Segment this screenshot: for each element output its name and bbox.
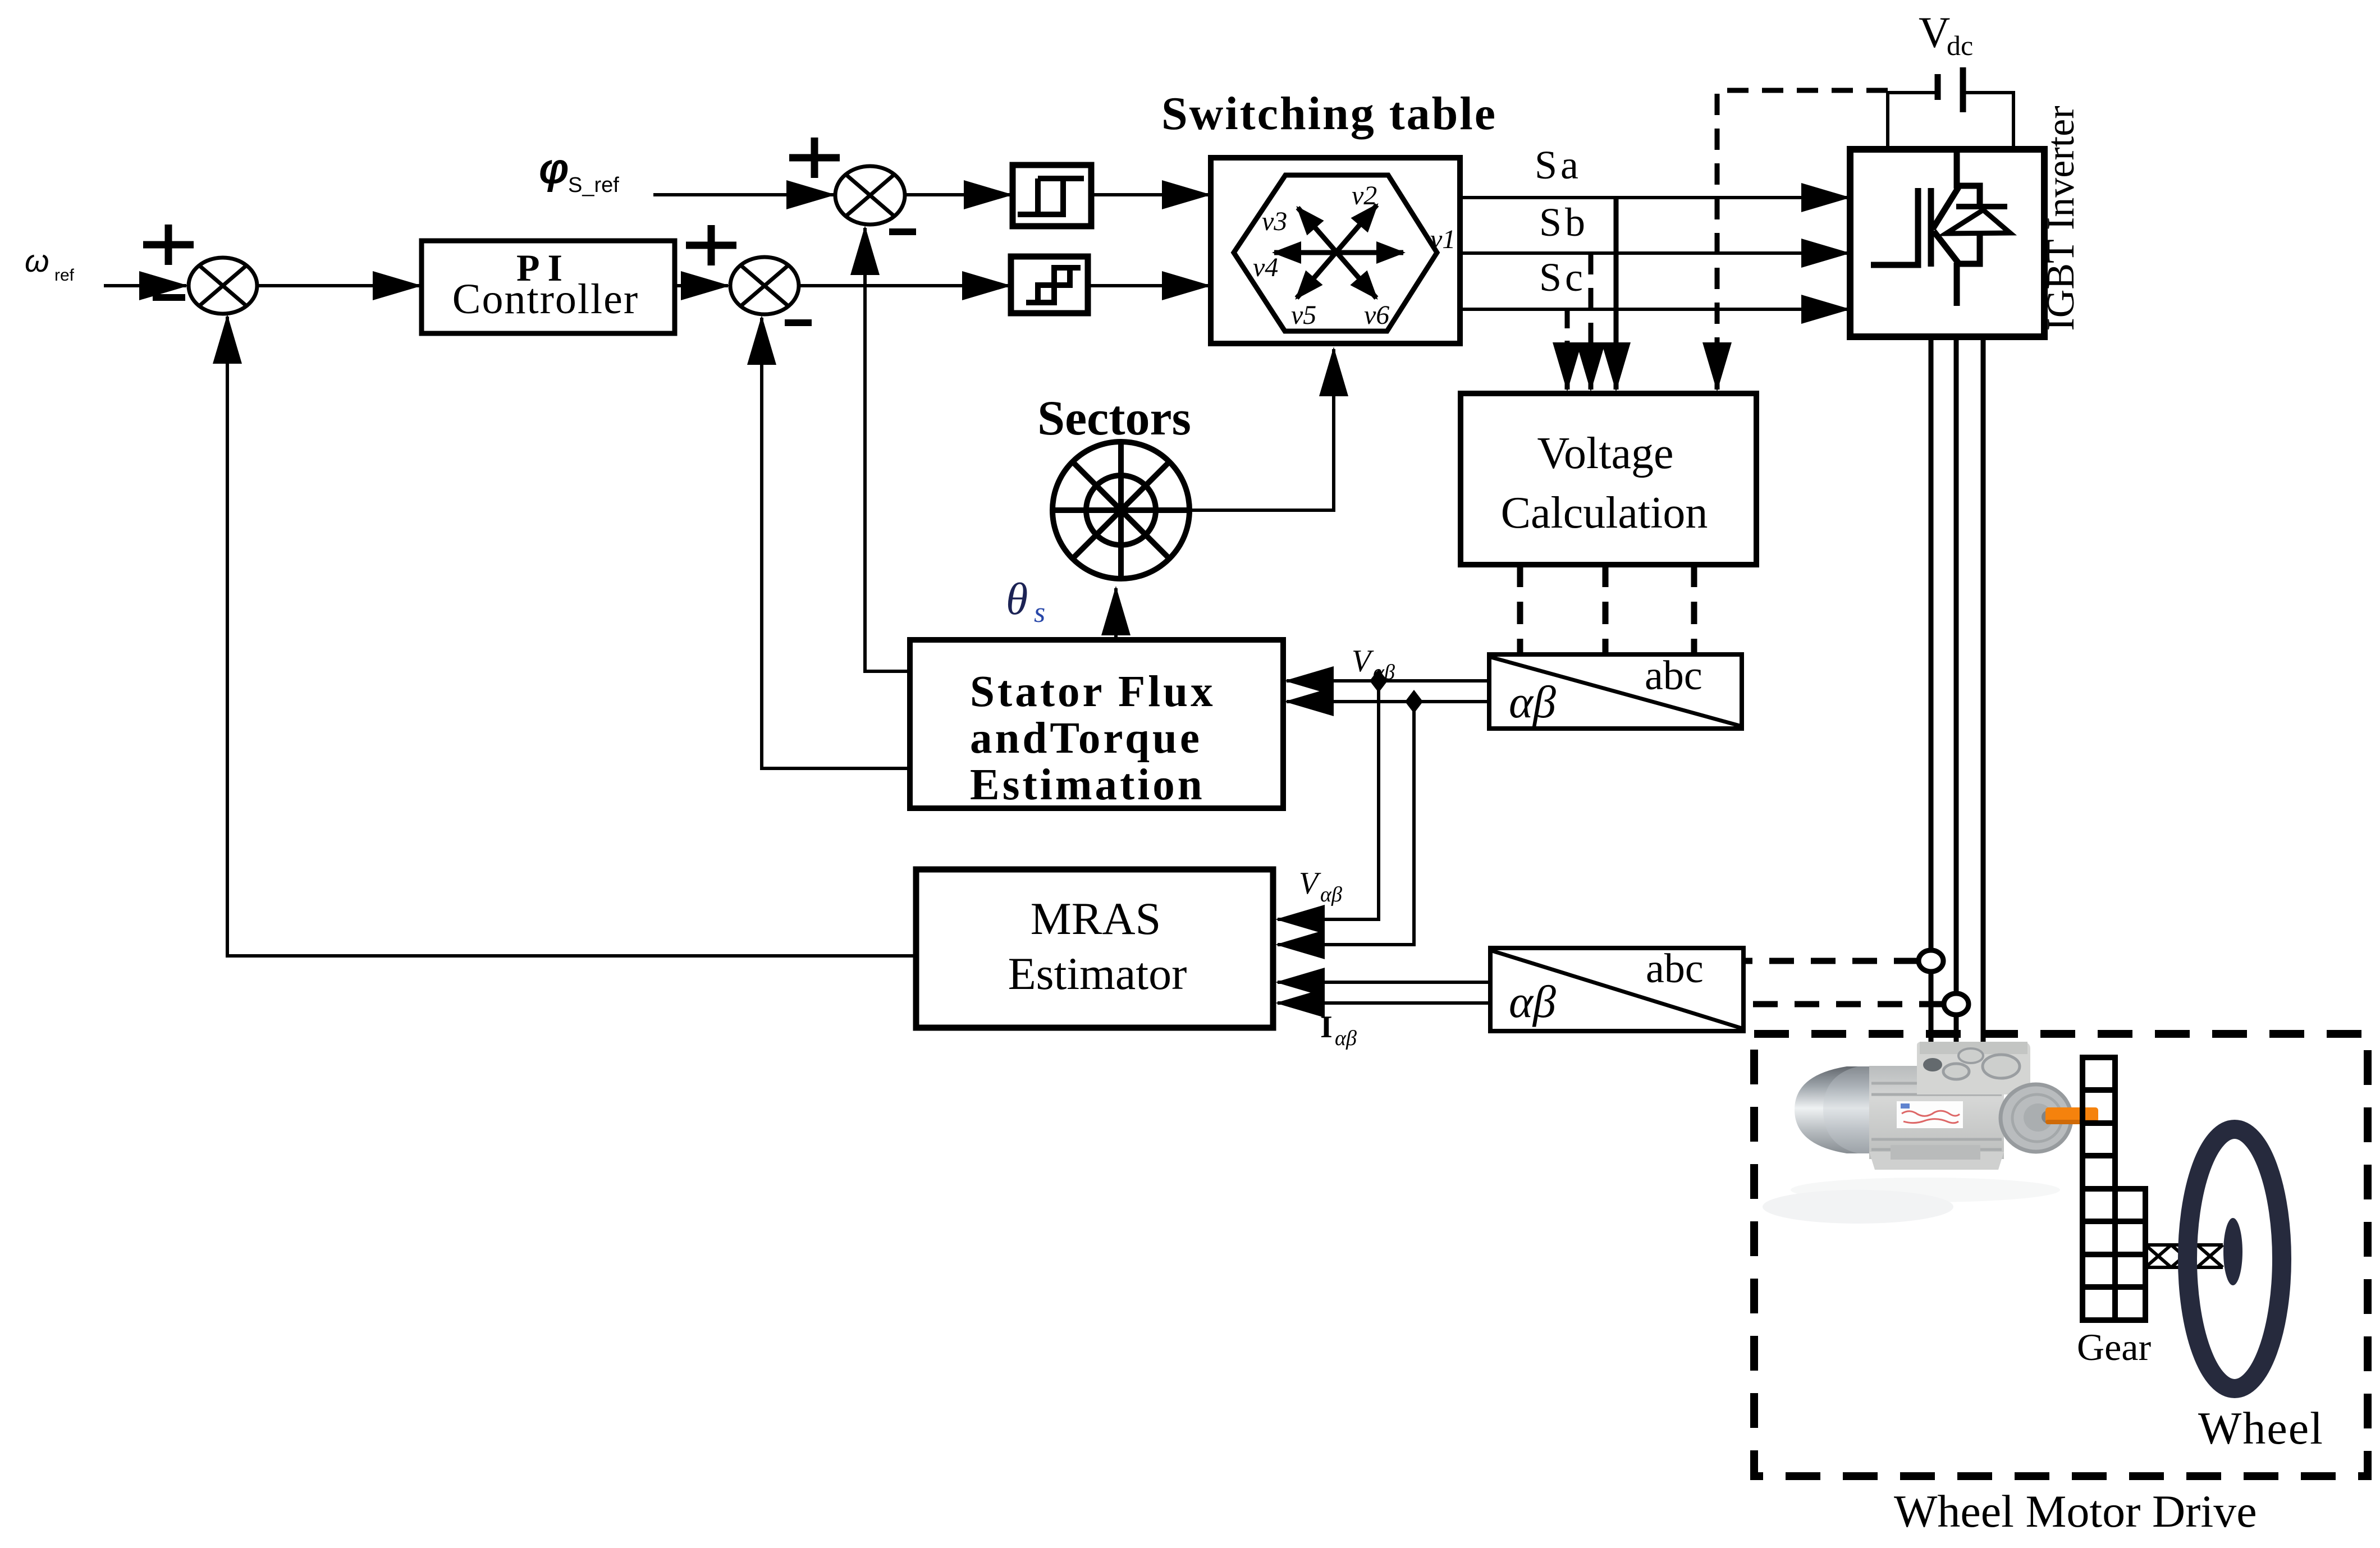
sector wheel	[1052, 442, 1189, 579]
svg-text:dc: dc	[1947, 30, 1973, 61]
voltage vector hexagon	[1234, 175, 1437, 331]
junction node on Valpha	[1370, 669, 1388, 693]
svg-text:ref: ref	[54, 266, 75, 285]
voltage calculation box	[1461, 393, 1756, 565]
svg-text:Sb: Sb	[1539, 200, 1589, 245]
node omega_ref input label	[25, 243, 75, 285]
svg-text:Wheel Motor Drive: Wheel Motor Drive	[1894, 1486, 2257, 1537]
wire torque summing to hysteresis comparator H2	[799, 284, 1009, 287]
wire Valpha from T1 to stator flux estimator	[1287, 679, 1489, 683]
vector arrows v1-v4 axis	[1274, 250, 1403, 255]
minus sign (torque summing)	[785, 319, 812, 326]
dashed tap from Sb to voltage calculation	[1589, 253, 1594, 359]
dashed Vdc sense line	[1717, 90, 1888, 359]
node V_alphabeta label (MRAS)	[1299, 866, 1342, 906]
node I_alphabeta label	[1320, 1010, 1357, 1050]
minus sign (flux summing)	[889, 228, 916, 235]
svg-text:Estimator: Estimator	[1008, 948, 1187, 999]
induction motor image	[1763, 1042, 2098, 1224]
svg-text:ω: ω	[25, 243, 49, 278]
wire torque feedback to S2	[762, 337, 910, 768]
switching table box	[1211, 158, 1460, 344]
node theta_s label	[1006, 575, 1045, 629]
vector arrows v3-v6 axis	[1298, 208, 1376, 298]
transform T2 abc to alpha-beta box	[1490, 948, 1743, 1031]
gear ladder tall column	[2082, 1057, 2115, 1320]
svg-text:abc: abc	[1646, 946, 1704, 992]
plus sign (torque summing)	[686, 225, 736, 265]
svg-text:Calculation: Calculation	[1501, 488, 1708, 538]
wire PI to torque summing	[675, 284, 728, 287]
wheel hub	[2223, 1218, 2242, 1285]
summing junction S2 (torque)	[730, 257, 799, 314]
svg-text:V: V	[1299, 866, 1321, 901]
Sa Sb Sc labels	[1535, 143, 1589, 300]
node V_alphabeta label (upper)	[1352, 644, 1395, 684]
wire Sc: switching table to inverter	[1460, 308, 1848, 311]
svg-text:Controller: Controller	[452, 276, 639, 323]
wire Sb: switching table to inverter	[1460, 251, 1848, 255]
dashed wire current sensor A to T2	[1743, 958, 1919, 964]
svg-text:MRAS: MRAS	[1031, 893, 1161, 944]
hysteresis comparator H1 (flux, two level)	[1013, 165, 1091, 226]
vector arrows v2-v5 axis	[1297, 205, 1377, 298]
wire Valpha down to MRAS	[1290, 681, 1379, 919]
wire Ialpha from T2 to MRAS	[1278, 981, 1490, 984]
vector labels	[1253, 181, 1456, 330]
dashed tap from Sc to voltage calculation	[1565, 309, 1570, 359]
svg-text:Voltage: Voltage	[1537, 429, 1674, 478]
wire stator flux estimator to sector wheel	[1114, 588, 1118, 640]
svg-text:Sa: Sa	[1535, 143, 1582, 187]
MRAS estimator box	[916, 869, 1273, 1028]
svg-text:V: V	[1352, 644, 1374, 679]
PI controller box	[422, 241, 675, 333]
battery Vdc wires	[1888, 93, 1935, 149]
current sensor on phase A	[1919, 950, 1943, 972]
wire H2 to switching table	[1088, 284, 1209, 287]
wheel	[2187, 1129, 2282, 1389]
wire Vbeta down to MRAS	[1290, 702, 1414, 945]
svg-text:Sc: Sc	[1539, 255, 1586, 300]
svg-text:v6: v6	[1364, 300, 1389, 330]
wire sector wheel to switching table	[1189, 359, 1334, 510]
svg-text:v1: v1	[1430, 225, 1456, 254]
svg-text:Gear: Gear	[2077, 1326, 2151, 1368]
svg-text:Wheel: Wheel	[2198, 1403, 2324, 1454]
wire Vbeta from T1 to stator flux estimator	[1287, 700, 1489, 703]
svg-text:andTorque: andTorque	[970, 714, 1202, 763]
wire Sa: switching table to inverter	[1460, 196, 1848, 199]
wire H1 to switching table	[1091, 193, 1209, 196]
axle cross-hatched shaft	[2145, 1245, 2223, 1267]
svg-text:abc: abc	[1645, 653, 1702, 699]
svg-text:αβ: αβ	[1509, 676, 1556, 727]
svg-text:αβ: αβ	[1320, 883, 1342, 906]
svg-text:v2: v2	[1352, 181, 1377, 210]
svg-text:s: s	[1034, 597, 1045, 629]
wire phase C from inverter to motor	[1981, 337, 1986, 1069]
wire phase A from inverter to motor	[1929, 337, 1934, 1069]
IGBT transistor symbol	[1871, 148, 2010, 306]
dashed wires voltage calculation to transform T1	[1520, 565, 1694, 654]
svg-text:αβ: αβ	[1509, 976, 1556, 1027]
svg-text:v3: v3	[1262, 207, 1287, 236]
svg-text:v5: v5	[1291, 300, 1316, 330]
svg-text:I: I	[1320, 1010, 1333, 1045]
svg-text:S_ref: S_ref	[568, 173, 619, 197]
svg-text:αβ: αβ	[1335, 1027, 1357, 1050]
gear ladder short column	[2115, 1189, 2145, 1320]
plus sign (flux summing)	[789, 138, 840, 178]
wheel motor drive dashed box	[1754, 1034, 2368, 1476]
transform T1 abc to alpha-beta box	[1489, 654, 1742, 729]
node phi_s_ref label	[539, 145, 619, 197]
svg-text:φ: φ	[539, 145, 569, 193]
svg-text:Switching table: Switching table	[1161, 88, 1497, 140]
wire speed feedback MRAS to S1	[227, 337, 916, 956]
dashed wire current sensor B to T2	[1743, 1001, 1944, 1007]
summing junction S1 (speed)	[189, 258, 257, 314]
svg-text:Stator Flux: Stator Flux	[970, 667, 1216, 716]
hysteresis comparator H2 (torque, three level)	[1011, 257, 1088, 313]
node Vdc label	[1919, 8, 1973, 61]
junction node on Vbeta	[1405, 690, 1423, 713]
wire flux summing to hysteresis comparator H1	[905, 193, 1011, 196]
wire omega_ref input	[104, 284, 186, 287]
minus sign (speed summing)	[153, 294, 185, 301]
wire flux feedback to S3	[865, 247, 910, 671]
svg-text:V: V	[1919, 8, 1950, 57]
wire phase B from inverter to motor	[1954, 337, 1959, 1069]
dashed tap from Sa to voltage calculation	[1614, 198, 1619, 369]
battery Vdc plates	[1935, 74, 1941, 100]
wire S1 to PI controller	[257, 284, 420, 287]
IGBT inverter box	[1850, 149, 2044, 337]
svg-text:Sectors: Sectors	[1037, 391, 1191, 446]
svg-text:v4: v4	[1253, 253, 1278, 282]
current sensor on phase B	[1944, 993, 1969, 1015]
wire phi_s_ref input	[653, 193, 834, 196]
svg-text:Estimation: Estimation	[970, 761, 1205, 809]
svg-text:IGBT Inverter: IGBT Inverter	[2039, 106, 2082, 331]
plus sign (speed summing)	[143, 225, 194, 265]
svg-text:θ: θ	[1006, 575, 1028, 624]
wire Ibeta from T2 to MRAS	[1278, 1001, 1490, 1005]
stator flux and torque estimation box	[910, 640, 1283, 808]
summing junction S3 (flux)	[835, 166, 905, 225]
